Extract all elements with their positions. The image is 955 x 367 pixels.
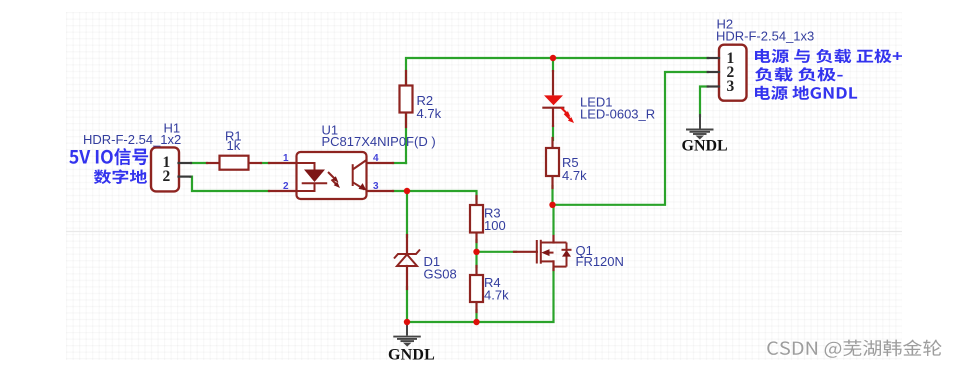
svg-text:4.7k: 4.7k [417,106,442,121]
svg-text:4.7k: 4.7k [562,168,587,183]
svg-text:3: 3 [727,78,735,95]
svg-text:100: 100 [484,218,506,233]
svg-text:FR120N: FR120N [576,254,624,269]
svg-text:GNDL: GNDL [388,347,435,364]
svg-text:2: 2 [163,168,171,185]
svg-text:HDR-F-2.54_1x2: HDR-F-2.54_1x2 [83,132,181,147]
svg-text:1: 1 [283,153,289,164]
svg-text:LED-0603_R: LED-0603_R [580,107,655,122]
svg-text:1k: 1k [227,138,241,153]
svg-text:4: 4 [373,153,379,164]
svg-text:HDR-F-2.54_1x3: HDR-F-2.54_1x3 [716,29,814,44]
svg-text:4.7k: 4.7k [484,288,509,303]
svg-text:PC817X4NIP0F(D ): PC817X4NIP0F(D ) [322,134,436,149]
svg-text:GNDL: GNDL [682,138,728,155]
svg-text:GS08: GS08 [424,266,457,281]
svg-text:3: 3 [373,181,379,192]
svg-text:2: 2 [283,181,289,192]
